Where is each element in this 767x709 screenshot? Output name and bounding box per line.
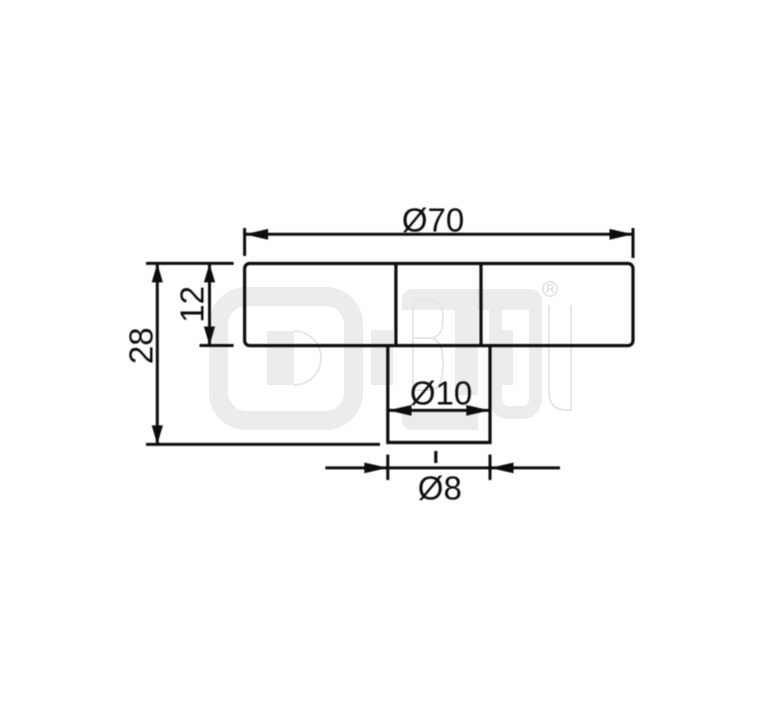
- dim O70 extension right: [632, 228, 635, 258]
- dim 12 arrow top: [204, 263, 215, 282]
- dim O70 line: [245, 233, 633, 236]
- watermark letter U top band: [489, 289, 542, 310]
- watermark letter B thin outline: [413, 300, 443, 390]
- svg-text:Ø70: Ø70: [402, 202, 464, 239]
- dim O10 arrow right: [466, 405, 490, 416]
- dim 28 bottom extension: [146, 443, 380, 446]
- watermark letter i bar: [371, 330, 393, 385]
- dim O70 arrow right: [610, 229, 634, 240]
- dim O8 arrow right: [490, 463, 514, 474]
- watermark letter D ring: [219, 297, 354, 421]
- dim O10 arrow left: [388, 405, 412, 416]
- watermark letter L thin outline: [549, 305, 571, 410]
- watermark registered mark: [543, 282, 557, 296]
- svg-text:12: 12: [174, 286, 211, 323]
- dim O8 line: [325, 466, 560, 469]
- dim 12 arrow bottom: [204, 327, 215, 346]
- divider line left: [394, 264, 397, 346]
- main flange rectangle: [245, 264, 633, 346]
- watermark letter U inner bar: [490, 330, 513, 385]
- dim O70 extension left: [243, 228, 246, 256]
- dim 12 bottom extension: [200, 344, 234, 347]
- watermark letter B chunky right: [455, 310, 478, 395]
- watermark inner small d bowl: [294, 331, 321, 385]
- dim O8 tick left: [386, 455, 389, 480]
- svg-text:Ø8: Ø8: [418, 470, 462, 507]
- watermark letter U ring: [496, 296, 536, 413]
- dim O8 tick right: [489, 455, 492, 480]
- dim 28 arrow top: [152, 263, 163, 282]
- dim 28 arrow bottom: [152, 425, 163, 444]
- center tick below stem: [434, 451, 437, 463]
- dim 12 top extension (shared): [146, 262, 234, 265]
- dim O10 line: [388, 409, 490, 412]
- watermark inner small d stem: [267, 331, 294, 385]
- stem rectangle: [388, 346, 490, 443]
- watermark logo: [219, 282, 572, 430]
- dim 28 line: [156, 263, 159, 444]
- watermark letter B chunky top: [402, 289, 490, 310]
- dim O8 arrow left: [364, 463, 388, 474]
- dim O70 arrow left: [245, 229, 269, 240]
- dim 12 line: [208, 263, 211, 345]
- watermark letter B chunky bottom: [402, 409, 478, 430]
- svg-text:Ø10: Ø10: [410, 375, 472, 412]
- svg-text:28: 28: [123, 327, 160, 364]
- divider line right: [479, 264, 482, 346]
